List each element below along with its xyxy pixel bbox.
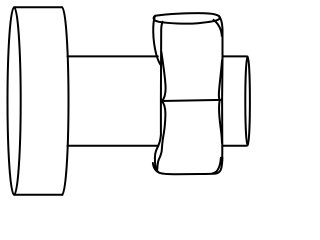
nut right upper pinch curve [219, 60, 222, 100]
nut bottom-right inner sliver [213, 158, 221, 174]
bolt head left face ellipse [8, 7, 21, 195]
bolt tip top line [223, 55, 247, 57]
bolt tip end ellipse [245, 56, 250, 145]
nut left outer top flare [153, 16, 160, 65]
nut bottom outline [153, 158, 222, 175]
nut mid facet line [161, 100, 222, 101]
nut top face [154, 13, 220, 23]
shaft bottom line [68, 145, 158, 147]
nut right silhouette [219, 16, 223, 164]
shaft top line [68, 55, 158, 57]
bolt head top line [14, 6, 62, 8]
bolt head right edge arc [62, 7, 69, 195]
nut right lower pinch curve [219, 101, 222, 144]
nut right facet slant [214, 20, 222, 36]
bolt head bottom line [14, 194, 62, 196]
nut left main vertical edge with bottom flare [155, 22, 163, 171]
nut left lower pinch curve [157, 101, 165, 170]
nut left upper pinch curve [161, 52, 165, 101]
bolt tip bottom line [223, 145, 247, 147]
